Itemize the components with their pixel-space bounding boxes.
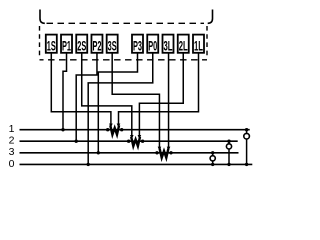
svg-text:2L: 2L (179, 37, 188, 53)
svg-text:2: 2 (9, 135, 15, 147)
svg-text:3: 3 (9, 146, 15, 158)
svg-text:P1: P1 (62, 37, 71, 53)
svg-text:1S: 1S (47, 37, 56, 53)
svg-text:1: 1 (9, 123, 15, 135)
svg-text:P3: P3 (133, 37, 142, 53)
svg-text:P0: P0 (148, 37, 157, 53)
svg-text:3S: 3S (108, 37, 117, 53)
svg-text:1L: 1L (194, 37, 203, 53)
svg-text:2S: 2S (77, 37, 86, 53)
svg-text:P2: P2 (92, 37, 101, 53)
svg-text:3L: 3L (164, 37, 173, 53)
svg-text:0: 0 (9, 158, 15, 170)
